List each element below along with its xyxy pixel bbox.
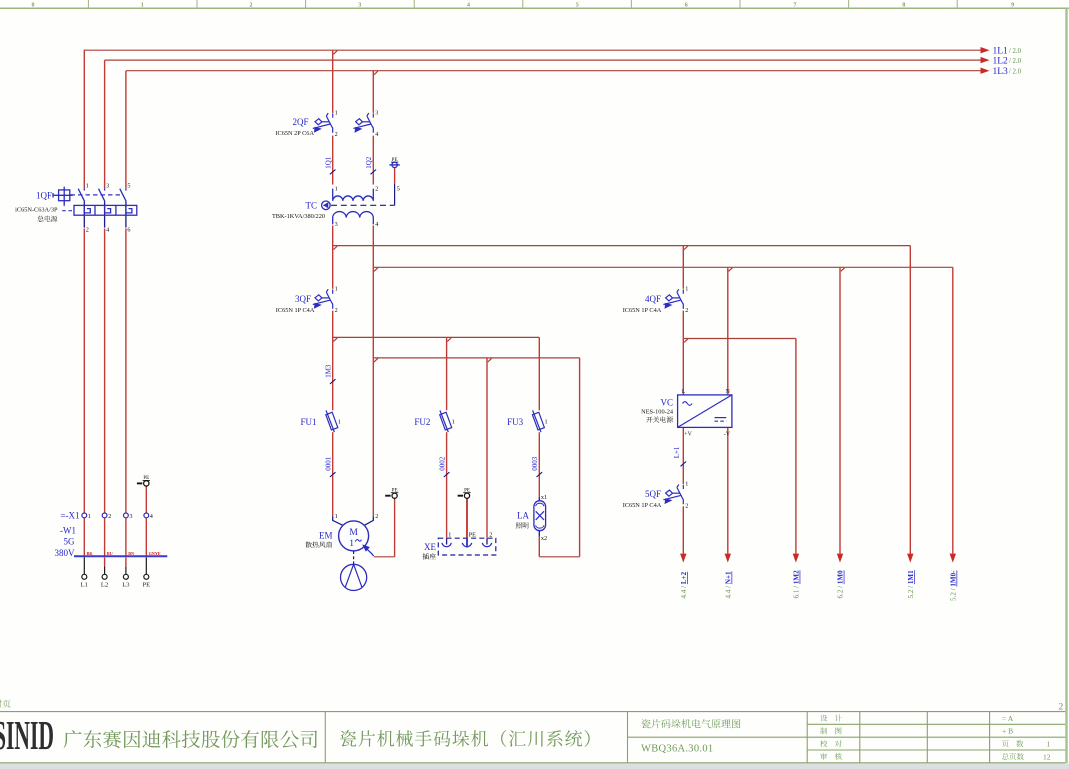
svg-text:/ 2.0: / 2.0 xyxy=(1009,48,1022,55)
ruler strip top xyxy=(0,0,1069,8)
bus 1L2 xyxy=(105,59,982,61)
TC PE link xyxy=(394,184,396,205)
svg-text:3: 3 xyxy=(375,109,378,116)
PE symbol at TC xyxy=(389,158,399,168)
svg-text:3: 3 xyxy=(358,3,361,9)
svg-text:IC65N 1P C4A: IC65N 1P C4A xyxy=(276,307,315,314)
svg-text:1M3: 1M3 xyxy=(325,364,333,378)
terminal 2 xyxy=(102,513,107,518)
svg-text:PE: PE xyxy=(142,582,150,589)
svg-text:WBQ36A.30.01: WBQ36A.30.01 xyxy=(641,744,713,755)
FU feed bus xyxy=(333,336,540,338)
svg-text:NES-100-24: NES-100-24 xyxy=(641,409,674,416)
arrow 1L1 xyxy=(981,47,990,53)
wire L1 drop xyxy=(83,50,85,556)
svg-text:IC65N 1P C4A: IC65N 1P C4A xyxy=(623,307,662,314)
svg-text:2: 2 xyxy=(335,131,338,138)
XE socket 1 xyxy=(442,538,451,547)
svg-text:3: 3 xyxy=(335,221,338,228)
TC core dashed line xyxy=(331,204,395,206)
wire label 1M3 xyxy=(325,364,336,384)
1QF pin numbers xyxy=(86,182,131,233)
svg-text:4.4 / N+1: 4.4 / N+1 xyxy=(725,571,733,599)
breaker 2QF (2P) xyxy=(275,109,378,138)
svg-text:1Q2: 1Q2 xyxy=(365,156,373,169)
svg-text:L2: L2 xyxy=(101,582,108,589)
svg-text:FU2: FU2 xyxy=(414,417,430,427)
core color codes xyxy=(87,551,161,556)
svg-text:3: 3 xyxy=(129,513,132,520)
cable tails xyxy=(84,557,146,574)
label 1M1 xyxy=(907,570,915,599)
svg-text:5: 5 xyxy=(397,185,400,192)
svg-text:5: 5 xyxy=(576,3,579,9)
svg-text:2: 2 xyxy=(489,532,492,539)
svg-text:5: 5 xyxy=(127,182,130,189)
svg-text:/ 2.0: / 2.0 xyxy=(1009,69,1022,76)
EM shaft dashes xyxy=(353,551,355,564)
junction bus1/2QF-1 xyxy=(334,51,338,55)
svg-text:1L1: 1L1 xyxy=(993,46,1009,56)
junction 24V-bus-a/TC-3 xyxy=(334,246,338,250)
sheet tab label (clipped) xyxy=(0,700,11,708)
svg-text:1: 1 xyxy=(338,419,341,426)
fan symbol xyxy=(341,564,367,590)
svg-text:6: 6 xyxy=(685,3,688,9)
1QF pole L2 blade xyxy=(99,188,105,227)
TC primary winding xyxy=(333,189,374,201)
arrow 1M0 down xyxy=(837,554,843,563)
bottom outside gray band xyxy=(0,763,1069,769)
breaker 5QF xyxy=(623,481,689,510)
wire L2 drop xyxy=(104,60,106,556)
svg-text:6.1 / 1M2: 6.1 / 1M2 xyxy=(793,570,801,599)
supply terminals L1 L2 L3 PE xyxy=(82,574,149,579)
svg-text:1: 1 xyxy=(88,513,91,520)
svg-text:1: 1 xyxy=(545,419,548,426)
svg-text:6: 6 xyxy=(127,227,130,234)
1QF operator dashed link xyxy=(62,203,74,211)
neutral bus to loads xyxy=(373,357,579,359)
wire 1M1 drop xyxy=(909,246,911,554)
transformer TC xyxy=(272,184,400,228)
svg-text:1: 1 xyxy=(685,285,688,292)
svg-text:1: 1 xyxy=(685,481,688,488)
cable -W1 labels xyxy=(55,526,77,558)
svg-text:+V: +V xyxy=(684,431,692,437)
svg-text:L: L xyxy=(682,389,686,395)
svg-text:4.4 / L+2: 4.4 / L+2 xyxy=(680,571,688,598)
svg-text:12: 12 xyxy=(1043,752,1051,761)
wire label 1Q2 xyxy=(365,156,376,174)
svg-text:VC: VC xyxy=(660,397,673,407)
svg-text:SINID: SINID xyxy=(0,712,54,758)
svg-text:2: 2 xyxy=(1059,703,1064,713)
2QF pole 2 xyxy=(353,113,373,133)
svg-text:=-X1: =-X1 xyxy=(60,511,79,521)
wire PE left drop xyxy=(145,486,147,556)
1QF pole L1 blade xyxy=(78,188,84,227)
arrow N+1 down xyxy=(725,554,731,563)
svg-text:1L3: 1L3 xyxy=(993,67,1009,77)
junction 24V-bus-b/TC-4 xyxy=(374,268,378,272)
svg-text:x2: x2 xyxy=(541,535,547,542)
breaker 3QF xyxy=(276,285,338,314)
1QF linkage dashes xyxy=(71,194,122,196)
XE socket 2 xyxy=(482,538,491,547)
XE pin numbers xyxy=(448,532,492,539)
label N+1 xyxy=(725,571,733,599)
svg-text:3: 3 xyxy=(106,182,109,189)
arrow labels bottom (rotated) xyxy=(680,570,958,601)
svg-text:2: 2 xyxy=(86,227,89,234)
junction FU-bus/FU2 xyxy=(447,338,451,342)
1QF thermal box xyxy=(74,205,137,215)
svg-text:5QF: 5QF xyxy=(645,489,661,499)
wire LA return riser xyxy=(579,358,581,557)
bus 1L1 xyxy=(84,49,982,51)
wire FU3 / LA column xyxy=(538,337,540,556)
wire label 0002 xyxy=(439,456,450,477)
svg-text:-V: -V xyxy=(724,431,731,437)
svg-text:1QF: 1QF xyxy=(36,190,52,200)
product name xyxy=(340,730,590,747)
wire 1M0 drop xyxy=(839,267,841,554)
junction N-bus/XE-2 xyxy=(488,358,492,362)
ruler digits xyxy=(32,3,1015,9)
arrow 1M0- down xyxy=(950,554,956,563)
PE symbol left column xyxy=(137,476,150,486)
junction 24V-bus-a/4QF-1 xyxy=(684,246,688,250)
svg-text:0003: 0003 xyxy=(531,456,539,471)
drawing title xyxy=(642,719,741,728)
svg-text:0: 0 xyxy=(32,3,35,9)
wire 1M2 drop xyxy=(795,339,797,554)
svg-text:BN: BN xyxy=(128,551,134,556)
svg-text:380V: 380V xyxy=(55,548,76,558)
TC pin numbers xyxy=(335,185,400,228)
fuse FU1 xyxy=(300,410,341,432)
svg-text:1: 1 xyxy=(335,285,338,292)
wire label L+1 xyxy=(673,446,686,466)
svg-text:1: 1 xyxy=(349,539,354,549)
label L+2 xyxy=(680,571,688,598)
2QF pole 1 xyxy=(313,113,333,133)
arrow 1M2 down xyxy=(793,554,799,563)
svg-text:1: 1 xyxy=(141,3,144,9)
svg-text:7: 7 xyxy=(794,3,797,9)
svg-text:2: 2 xyxy=(250,3,253,9)
arrow 1M1 down xyxy=(907,554,913,563)
wire L3 drop xyxy=(125,71,127,557)
svg-text:0001: 0001 xyxy=(325,456,333,471)
XE socket PE xyxy=(462,538,471,547)
svg-text:XE: XE xyxy=(424,542,436,552)
svg-text:2: 2 xyxy=(335,307,338,314)
wire N column to VC xyxy=(727,267,729,554)
svg-text:2: 2 xyxy=(685,502,688,509)
arrow 1L2 xyxy=(981,57,990,63)
svg-text:1: 1 xyxy=(1047,740,1051,749)
svg-text:4: 4 xyxy=(375,221,378,228)
svg-text:LA: LA xyxy=(517,511,529,521)
svg-text:TBK-1KVA/380/220: TBK-1KVA/380/220 xyxy=(272,213,325,220)
lamp LA xyxy=(516,494,547,542)
svg-text:4: 4 xyxy=(106,227,109,234)
svg-text:3QF: 3QF xyxy=(295,294,311,304)
company name xyxy=(64,730,318,748)
svg-text:IC65N 2P C6A: IC65N 2P C6A xyxy=(275,130,314,137)
svg-text:/ 2.0: / 2.0 xyxy=(1009,58,1022,65)
svg-text:PE: PE xyxy=(469,532,476,539)
svg-text:1L2: 1L2 xyxy=(993,56,1009,66)
wire XE PE column xyxy=(466,499,468,538)
cable line xyxy=(74,555,167,557)
svg-text:2: 2 xyxy=(375,185,378,192)
fuse FU2 xyxy=(414,410,455,432)
svg-text:4: 4 xyxy=(375,131,378,138)
wire column TC pin2/4 / neutral / EM pin2 xyxy=(372,71,374,517)
PE symbol at XE xyxy=(458,489,471,499)
bus destination labels top right xyxy=(993,46,1009,77)
terminal strip -X1 xyxy=(60,511,152,521)
svg-text:9: 9 xyxy=(1011,3,1014,9)
svg-text:4: 4 xyxy=(150,513,153,520)
motor EM xyxy=(306,513,379,591)
svg-text:8: 8 xyxy=(902,3,905,9)
EM PE blade xyxy=(364,547,373,556)
title block grid xyxy=(0,712,1065,763)
LA bottom return wire xyxy=(539,556,579,558)
svg-text:0002: 0002 xyxy=(439,456,447,471)
svg-text:= A: = A xyxy=(1002,714,1014,723)
breaker 1QF (3P) xyxy=(15,182,137,233)
EM circle xyxy=(339,521,369,551)
svg-text:1Q1: 1Q1 xyxy=(325,156,333,169)
svg-text:1: 1 xyxy=(452,419,455,426)
1QF pole L3 blade xyxy=(120,188,126,227)
junction 24V-bus-b/VC-N xyxy=(729,268,733,272)
24V bus b (TC pin4 neutral) xyxy=(373,266,953,268)
label 1M0 xyxy=(837,570,845,599)
svg-text:L3: L3 xyxy=(122,582,130,589)
junction 24V-bus-b/1M0 xyxy=(841,268,845,272)
svg-text:iC65N-C63A/3P: iC65N-C63A/3P xyxy=(15,206,58,213)
svg-text:2: 2 xyxy=(375,513,378,520)
right frame border xyxy=(1065,8,1067,763)
svg-text:5.2 / 1M0-: 5.2 / 1M0- xyxy=(950,570,958,601)
EM pin numbers xyxy=(335,513,379,520)
svg-text:2: 2 xyxy=(685,307,688,314)
wire PE from TC xyxy=(394,167,396,184)
svg-text:1: 1 xyxy=(448,532,451,539)
svg-text:5G: 5G xyxy=(64,537,76,547)
wire 4QF / VC / 5QF column xyxy=(682,246,684,554)
TC symbol circle xyxy=(322,201,331,210)
arrows to sheet 2 (right) xyxy=(680,47,989,563)
svg-text:L+1: L+1 xyxy=(673,446,681,458)
svg-text:FU3: FU3 xyxy=(507,417,524,427)
svg-text:BU: BU xyxy=(107,551,113,556)
svg-text:5.2 / 1M1: 5.2 / 1M1 xyxy=(907,570,915,599)
svg-text:4: 4 xyxy=(467,3,470,9)
junction bus3/2QF-3 xyxy=(374,71,378,75)
svg-text:2QF: 2QF xyxy=(292,117,308,127)
terminal 3 xyxy=(124,513,129,518)
power supply VC xyxy=(641,389,732,437)
fuse FU3 xyxy=(507,410,548,432)
svg-text:+ B: + B xyxy=(1002,727,1013,736)
TC secondary winding xyxy=(333,212,374,225)
24V bus a (TC pin3 feed) xyxy=(333,245,911,247)
bus from 4QF xyxy=(683,338,796,340)
wire 1M0- drop xyxy=(952,267,954,554)
bus 1L3 xyxy=(126,70,982,72)
wire XE pin2 column xyxy=(486,358,488,538)
PE symbol at EM xyxy=(385,489,398,499)
wire FU2 column xyxy=(446,337,448,537)
svg-text:1: 1 xyxy=(86,182,89,189)
svg-text:x1: x1 xyxy=(541,494,547,501)
svg-text:FU1: FU1 xyxy=(300,417,316,427)
svg-text:1: 1 xyxy=(335,109,338,116)
label 1M2 xyxy=(793,570,801,599)
wire label 0003 xyxy=(531,456,542,477)
svg-text:GNYE: GNYE xyxy=(149,551,161,556)
svg-text:1: 1 xyxy=(335,185,338,192)
wire EM PE riser xyxy=(394,499,396,557)
EM pin stubs xyxy=(333,516,343,525)
terminal 1 xyxy=(82,513,87,518)
breaker 4QF xyxy=(623,285,689,314)
junction FU-bus/3QF-2 xyxy=(334,338,338,342)
svg-text:L1: L1 xyxy=(81,582,88,589)
arrow 1L3 xyxy=(981,68,990,74)
label 1M0- xyxy=(950,570,958,601)
svg-text:6.2 / 1M0: 6.2 / 1M0 xyxy=(837,570,845,599)
svg-text:IC65N 1P C4A: IC65N 1P C4A xyxy=(623,502,662,509)
svg-text:TC: TC xyxy=(305,200,317,210)
terminal 4 xyxy=(144,513,149,518)
wire column TC primary 1 / 3QF / FU1 / EM xyxy=(332,50,334,516)
svg-text:M: M xyxy=(349,528,358,538)
svg-text:4QF: 4QF xyxy=(645,294,661,304)
arrow L+2 down xyxy=(680,554,686,563)
junction N-bus/column xyxy=(374,358,378,362)
svg-text:-W1: -W1 xyxy=(60,526,76,536)
junction 4QF-bus/VC-L xyxy=(684,339,688,343)
wire label 0001 xyxy=(325,456,336,477)
svg-text:2: 2 xyxy=(108,513,111,520)
1QF manual operator xyxy=(53,187,73,205)
svg-text:BK: BK xyxy=(87,551,94,556)
socket XE xyxy=(423,532,496,560)
EM PE bottom wire xyxy=(374,556,395,558)
title block labels xyxy=(820,714,1051,762)
svg-text:1: 1 xyxy=(335,513,338,520)
wire label 1Q1 xyxy=(325,156,336,174)
2QF pin numbers xyxy=(335,109,379,138)
svg-text:EM: EM xyxy=(319,530,333,540)
